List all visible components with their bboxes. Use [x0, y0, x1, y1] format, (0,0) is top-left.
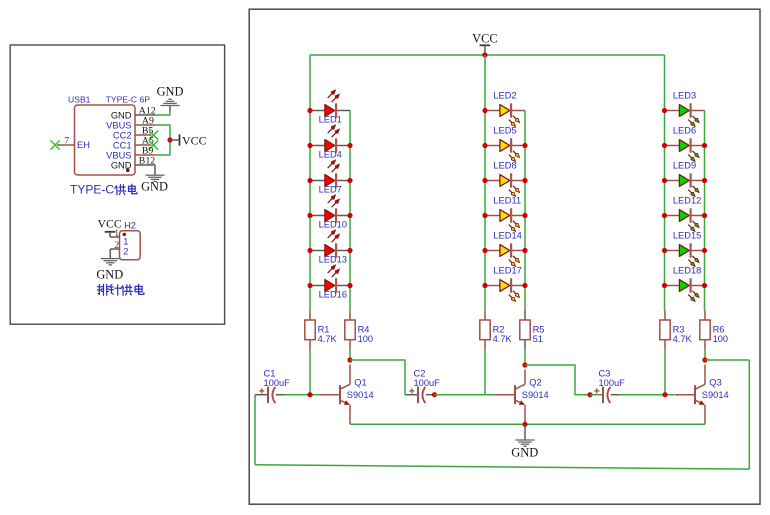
junction anode rail	[307, 213, 312, 218]
svg-text:4.7K: 4.7K	[493, 334, 513, 344]
junction anode rail	[307, 143, 312, 148]
svg-text:CC2: CC2	[113, 130, 132, 140]
svg-text:LED17: LED17	[493, 266, 521, 276]
wire anode rail x=485	[484, 55, 486, 311]
power flag VCC (USB)	[170, 134, 207, 148]
USB1 pin A5	[135, 135, 154, 146]
LED LED14	[485, 231, 525, 267]
svg-text:GND: GND	[157, 85, 184, 99]
USB1 pin A9	[135, 115, 155, 126]
svg-text:Q2: Q2	[529, 378, 541, 388]
junction anode rail	[482, 108, 487, 113]
svg-text:LED10: LED10	[319, 219, 347, 229]
H2 pin 1 marker dot	[123, 233, 126, 236]
connector USB1 TYPE-C 6P body	[68, 94, 150, 175]
LED LED7	[310, 160, 350, 194]
LED LED5	[485, 126, 525, 162]
junction cathode rail	[522, 248, 527, 253]
resistor R1 4.7K	[305, 311, 338, 350]
svg-text:S9014: S9014	[347, 390, 374, 400]
junction anode rail	[482, 213, 487, 218]
wire Q1 collector feed to C2	[350, 360, 405, 395]
svg-text:4.7K: 4.7K	[318, 334, 338, 344]
svg-text:100uF: 100uF	[414, 378, 441, 388]
resistor R2 4.7K	[480, 311, 513, 350]
wire C3 to Q3 base	[620, 394, 675, 396]
wire cathode rail x=350	[349, 111, 351, 311]
svg-text:2: 2	[114, 240, 119, 251]
svg-text:LED3: LED3	[673, 91, 696, 101]
transistor Q1 S9014	[320, 378, 374, 425]
svg-text:LED13: LED13	[319, 254, 347, 264]
junction cathode rail	[522, 143, 527, 148]
svg-text:LED7: LED7	[319, 184, 342, 194]
LED LED16	[310, 265, 350, 299]
LED LED1	[310, 90, 350, 124]
junction anode rail	[482, 143, 487, 148]
svg-text:GND: GND	[111, 110, 132, 120]
junction anode rail	[662, 143, 667, 148]
svg-text:LED15: LED15	[673, 231, 701, 241]
wire Q3 collector stub	[704, 365, 706, 385]
junction cathode rail	[347, 213, 352, 218]
USB1 pin B12	[135, 155, 155, 166]
ground flag GND (H2)	[96, 258, 123, 282]
LED LED3	[665, 91, 705, 127]
svg-text:7: 7	[64, 135, 69, 146]
junction anode rail	[662, 213, 667, 218]
junction anode rail	[662, 178, 667, 183]
LED LED2	[485, 91, 525, 127]
svg-text:2: 2	[123, 246, 128, 256]
wire B12 to GND	[154, 165, 156, 175]
junction anode rail	[662, 248, 667, 253]
junction Q3 collector node	[702, 357, 707, 362]
junction anode rail	[307, 108, 312, 113]
wire R6 to Q3 collector node	[704, 350, 706, 360]
junction C2 output node	[432, 392, 437, 397]
svg-text:LED18: LED18	[673, 266, 701, 276]
svg-text:LED8: LED8	[493, 161, 516, 171]
junction cathode rail	[347, 143, 352, 148]
LED LED12	[665, 196, 705, 232]
junction cathode rail	[702, 143, 707, 148]
capacitor C2 100uF	[405, 369, 440, 404]
svg-text:LED5: LED5	[493, 126, 516, 136]
svg-text:S9014: S9014	[522, 390, 549, 400]
power flag VCC (H2)	[98, 217, 122, 237]
junction cathode rail	[702, 283, 707, 288]
svg-text:B12: B12	[139, 155, 155, 166]
svg-text:4.7K: 4.7K	[673, 334, 693, 344]
svg-text:GND: GND	[511, 446, 538, 460]
svg-text:LED6: LED6	[673, 126, 696, 136]
junction cathode rail	[702, 178, 707, 183]
wire feedback bottom run	[255, 465, 749, 469]
junction anode rail	[307, 248, 312, 253]
power flag VCC (top)	[472, 31, 497, 53]
header H2 body	[120, 221, 141, 260]
USB1 pin A12	[135, 105, 156, 116]
junction anode rail	[662, 283, 667, 288]
svg-text:CC1: CC1	[113, 140, 132, 150]
wire R3 to Q3 base node	[664, 350, 666, 395]
resistor R5 51	[520, 311, 545, 350]
junction cathode rail	[702, 213, 707, 218]
wire anode rail x=310	[309, 55, 311, 311]
title TYPE-C power supply	[70, 182, 137, 196]
USB1 pin 7 EH	[57, 135, 75, 146]
junction cathode rail	[347, 248, 352, 253]
svg-text:GND: GND	[141, 180, 168, 194]
wire A12 to GND	[155, 111, 170, 115]
LED LED9	[665, 161, 705, 197]
LED LED8	[485, 161, 525, 197]
junction anode rail	[482, 283, 487, 288]
junction anode rail	[482, 248, 487, 253]
svg-text:LED9: LED9	[673, 161, 696, 171]
junction cathode rail	[347, 178, 352, 183]
svg-text:TYPE-C: TYPE-C	[70, 182, 114, 196]
svg-text:LED11: LED11	[493, 196, 521, 206]
wire feedback right riser	[748, 360, 750, 469]
wire emitter rail	[350, 423, 705, 425]
H2 pin 2	[110, 240, 119, 251]
LED LED4	[310, 125, 350, 159]
no-connect X on pin 7	[51, 140, 60, 149]
svg-text:LED1: LED1	[319, 114, 342, 124]
wire VBUS bracket A9-B9	[155, 125, 170, 155]
junction anode rail	[482, 178, 487, 183]
LED LED15	[665, 231, 705, 267]
svg-text:100uF: 100uF	[599, 378, 626, 388]
pin marker dot	[126, 169, 130, 173]
wire C2 to Q2 base	[435, 394, 496, 396]
H2 pin 1	[110, 228, 120, 239]
USB1 pin B9	[135, 145, 155, 156]
LED LED10	[310, 195, 350, 229]
wire R4 to Q1 collector node	[349, 350, 351, 360]
title pin-header power supply	[98, 284, 144, 295]
svg-text:USB1: USB1	[68, 94, 91, 104]
wire C1 left drop	[254, 395, 256, 465]
svg-text:LED4: LED4	[319, 149, 342, 159]
no-connect X on pin B5	[149, 130, 158, 139]
junction cathode rail	[702, 248, 707, 253]
svg-text:Q3: Q3	[709, 378, 721, 388]
svg-text:100: 100	[358, 334, 374, 344]
svg-text:EH: EH	[77, 140, 90, 150]
ground flag GND (top)	[157, 85, 184, 111]
svg-text:1: 1	[114, 228, 119, 239]
svg-text:TYPE-C 6P: TYPE-C 6P	[106, 94, 151, 104]
ground flag GND (main)	[511, 424, 538, 459]
resistor R4 100	[345, 311, 373, 350]
svg-text:LED12: LED12	[673, 196, 701, 206]
junction VBUS node	[167, 137, 172, 142]
wire C1 to Q1 base	[285, 394, 320, 396]
resistor R3 4.7K	[660, 311, 693, 350]
svg-text:VCC: VCC	[182, 134, 207, 148]
wire Q1 collector stub	[349, 365, 351, 385]
resistor R6 100	[700, 311, 728, 350]
svg-text:VBUS: VBUS	[106, 150, 131, 160]
ground flag GND (bottom of USB1)	[141, 175, 168, 194]
wire R1 to Q1 base node	[309, 350, 311, 395]
junction Q2 collector node	[522, 362, 527, 367]
wire cathode rail x=525	[524, 111, 526, 311]
junction cathode rail	[522, 178, 527, 183]
junction C3 input node	[587, 392, 592, 397]
svg-text:VCC: VCC	[472, 31, 497, 45]
LED LED17	[485, 266, 525, 302]
LED LED11	[485, 196, 525, 232]
svg-text:Q1: Q1	[354, 378, 366, 388]
junction Q1 collector node	[347, 357, 352, 362]
no-connect X on pin A5	[149, 140, 158, 149]
junction Q1 base node	[307, 392, 312, 397]
wire Q2 collector feed to C3	[525, 365, 590, 395]
svg-text:51: 51	[533, 334, 543, 344]
transistor Q2 S9014	[495, 378, 549, 425]
svg-text:1: 1	[123, 236, 128, 246]
junction anode rail	[307, 178, 312, 183]
wire H2 pin2 to GND	[109, 249, 111, 258]
junction VCC	[482, 52, 487, 57]
svg-text:S9014: S9014	[702, 390, 729, 400]
svg-text:VBUS: VBUS	[106, 120, 131, 130]
svg-text:LED14: LED14	[493, 231, 521, 241]
junction cathode rail	[522, 213, 527, 218]
USB1 pin B5	[135, 125, 153, 136]
transistor Q3 S9014	[675, 378, 729, 425]
wire cathode rail x=704.5	[704, 111, 706, 311]
svg-text:100uF: 100uF	[264, 378, 291, 388]
svg-text:LED16: LED16	[319, 289, 347, 299]
junction Q3 base node	[662, 392, 667, 397]
LED LED13	[310, 230, 350, 264]
junction cathode rail	[347, 283, 352, 288]
capacitor C3 100uF	[590, 369, 625, 404]
LED LED6	[665, 126, 705, 162]
wire R5 to Q2 collector node	[524, 350, 526, 365]
USB1 pin names	[77, 110, 132, 170]
wire R2 to Q2 base node	[484, 350, 486, 395]
junction anode rail	[662, 108, 667, 113]
left sheet border	[10, 45, 224, 324]
right sheet border	[249, 9, 760, 504]
svg-text:H2: H2	[124, 221, 136, 231]
svg-text:100: 100	[713, 334, 729, 344]
capacitor C1 100uF	[255, 369, 290, 404]
LED LED18	[665, 266, 705, 302]
junction cathode rail	[522, 283, 527, 288]
wire Q2 collector stub	[524, 370, 526, 385]
svg-text:LED2: LED2	[493, 91, 516, 101]
wire R6 node to riser	[705, 359, 749, 361]
junction emitter GND node	[522, 422, 527, 427]
wire VCC top rail	[310, 54, 665, 56]
svg-text:GND: GND	[96, 268, 123, 282]
wire anode rail x=664.5	[664, 55, 666, 311]
junction anode rail	[307, 283, 312, 288]
